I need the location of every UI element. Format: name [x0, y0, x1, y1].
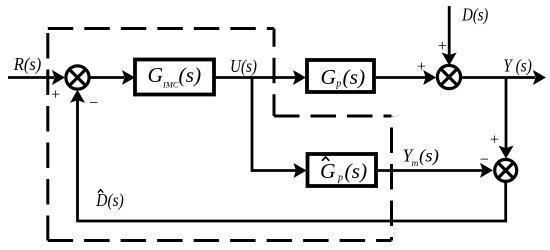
svg-text:U(s): U(s): [230, 56, 257, 76]
svg-text:(s): (s): [345, 159, 368, 183]
svg-text:G: G: [320, 159, 336, 183]
svg-text:Y (s): Y (s): [503, 55, 532, 75]
svg-text:IMC: IMC: [162, 80, 179, 90]
svg-text:R(s): R(s): [13, 54, 42, 74]
svg-text:p: p: [335, 78, 341, 89]
svg-text:+: +: [417, 59, 426, 76]
svg-text:+: +: [490, 131, 499, 148]
svg-text:(s): (s): [179, 63, 202, 87]
svg-text:p: p: [337, 173, 343, 184]
svg-text:G: G: [148, 63, 164, 87]
svg-text:+: +: [51, 87, 60, 104]
svg-text:−: −: [89, 95, 98, 112]
svg-text:D(s): D(s): [461, 5, 488, 25]
svg-text:D(s): D(s): [95, 190, 124, 210]
svg-text:(s): (s): [419, 146, 439, 166]
svg-text:(s): (s): [343, 65, 366, 89]
svg-text:−: −: [480, 151, 489, 168]
svg-text:G: G: [321, 65, 337, 89]
svg-text:m: m: [412, 159, 419, 169]
svg-text:+: +: [438, 38, 447, 55]
